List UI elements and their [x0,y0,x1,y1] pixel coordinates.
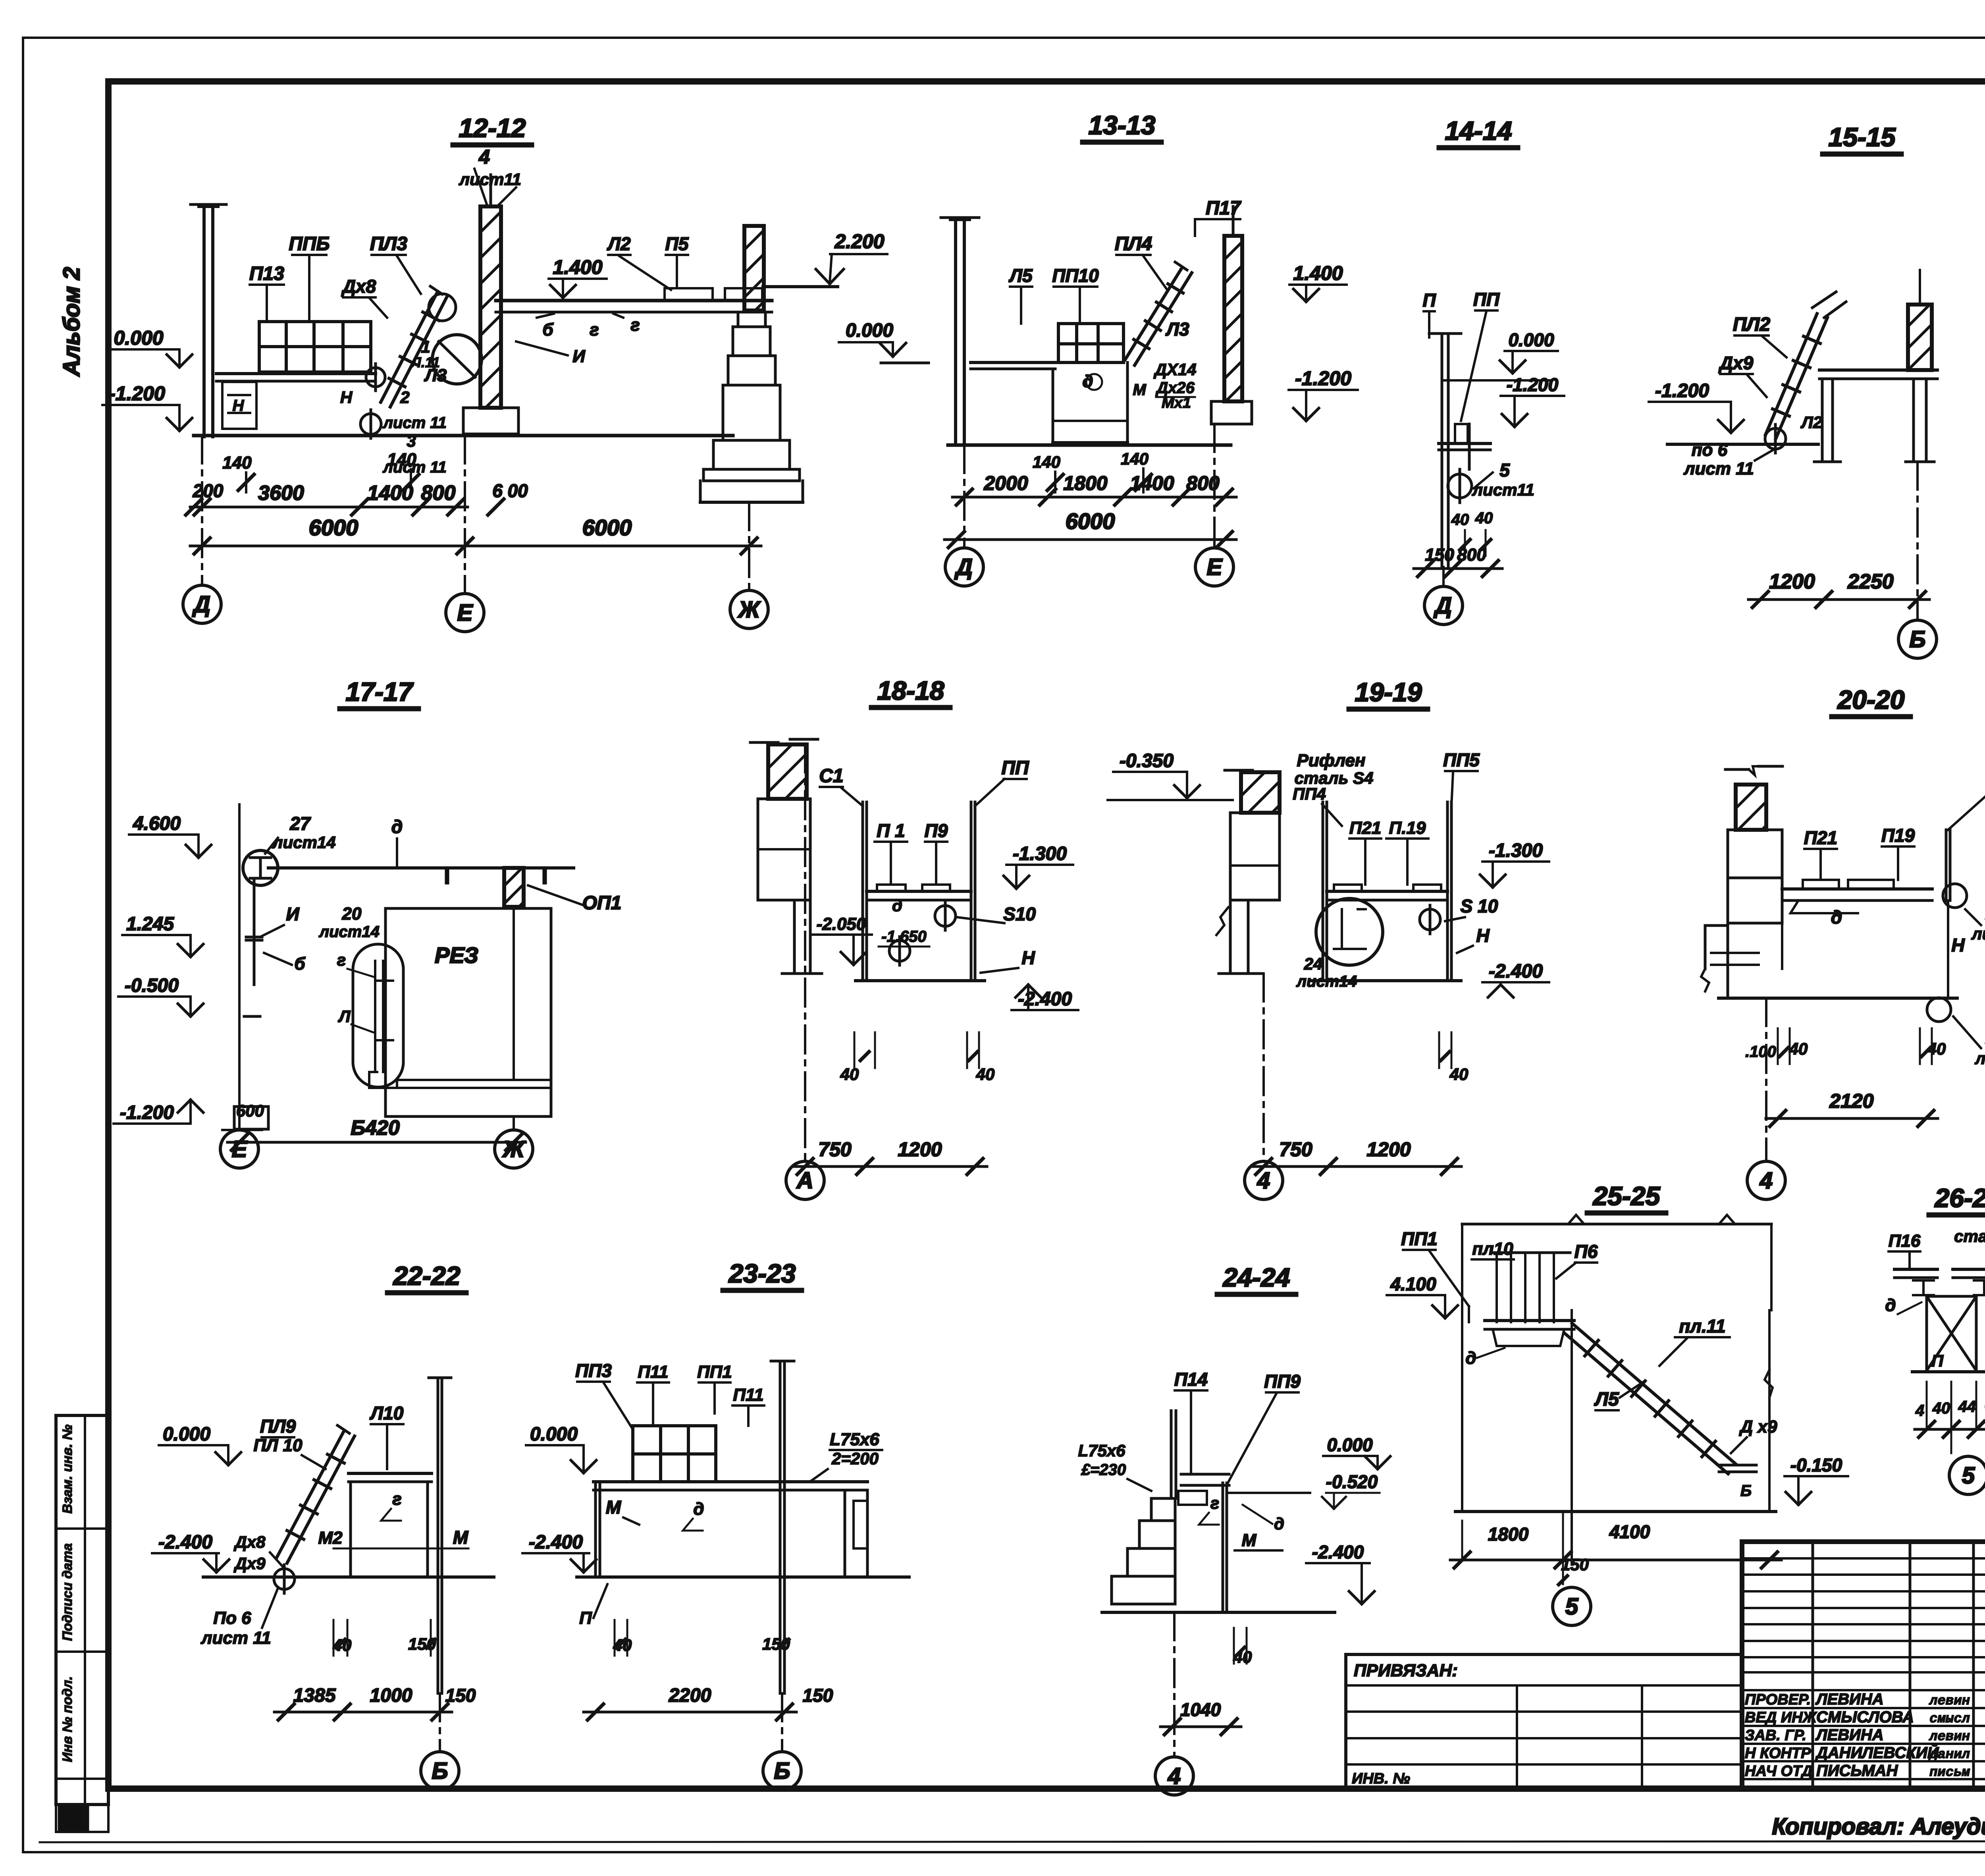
svg-text:И: И [286,904,299,924]
svg-text:13-13: 13-13 [1089,110,1156,140]
svg-text:1400: 1400 [367,482,413,505]
svg-text:L75х6: L75х6 [830,1430,879,1449]
svg-text:ПП9: ПП9 [1264,1371,1301,1392]
svg-text:Н: Н [1476,925,1490,946]
svg-text:П21: П21 [1349,818,1382,838]
svg-text:Д: Д [954,554,973,580]
svg-text:I: I [542,865,547,889]
svg-text:-2.400: -2.400 [158,1532,212,1553]
svg-text:ПЛ 10: ПЛ 10 [253,1436,303,1455]
svg-text:40: 40 [333,1636,352,1654]
svg-text:М: М [453,1527,469,1548]
svg-text:П11: П11 [733,1385,763,1405]
svg-text:П11: П11 [638,1362,668,1382]
svg-text:А: А [796,1168,813,1193]
svg-text:0.000: 0.000 [114,327,163,349]
svg-text:И: И [572,347,586,366]
svg-text:L75х6: L75х6 [1078,1441,1125,1460]
svg-text:г: г [590,320,599,339]
svg-text:П16: П16 [1889,1231,1921,1251]
svg-text:Б: Б [432,1758,448,1784]
svg-text:1000: 1000 [370,1685,412,1706]
svg-text:140: 140 [1033,453,1060,471]
svg-text:ВЕД ИНЖ: ВЕД ИНЖ [1745,1709,1817,1726]
svg-text:г: г [1210,1494,1219,1512]
svg-text:Подписи дата: Подписи дата [60,1543,75,1641]
svg-text:ПП: ПП [1001,758,1029,779]
svg-text:По 6: По 6 [213,1608,251,1628]
svg-text:0.000: 0.000 [530,1424,578,1445]
svg-text:1200: 1200 [1769,570,1815,593]
svg-text:П14: П14 [1174,1369,1208,1390]
svg-text:4.100: 4.100 [1390,1274,1436,1294]
svg-text:д: д [1831,907,1842,927]
svg-text:Дх8: Дх8 [233,1533,266,1551]
svg-text:ПЛ4: ПЛ4 [1115,233,1152,255]
svg-text:Н КОНТР: Н КОНТР [1745,1745,1811,1762]
svg-text:2250: 2250 [1847,570,1894,593]
svg-text:ПП5: ПП5 [1443,750,1480,770]
svg-text:2120: 2120 [1829,1090,1873,1112]
svg-text:Н: Н [340,388,353,407]
svg-text:-0.500: -0.500 [125,975,179,996]
svg-text:лист 11: лист 11 [382,414,447,432]
svg-text:Н: Н [233,397,245,415]
svg-text:-1.200: -1.200 [1655,380,1709,401]
svg-text:26-26: 26-26 [1934,1183,1985,1213]
svg-text:1.400: 1.400 [553,256,602,278]
svg-text:П19: П19 [1881,825,1915,846]
svg-text:150: 150 [1425,545,1454,565]
svg-text:4: 4 [1257,1168,1270,1193]
svg-text:0.000: 0.000 [846,320,893,341]
svg-text:Ж: Ж [502,1136,526,1162]
svg-text:40: 40 [1789,1039,1808,1058]
svg-text:1200: 1200 [1366,1138,1411,1161]
svg-text:1400: 1400 [1130,472,1174,494]
svg-text:ЛЕВИНА: ЛЕВИНА [1815,1726,1884,1744]
svg-text:С1: С1 [819,765,843,787]
svg-text:Л5: Л5 [1008,265,1033,286]
svg-text:П21: П21 [1804,827,1837,848]
svg-text:П 1: П 1 [877,820,905,841]
svg-text:Дх8: Дх8 [341,276,376,297]
svg-text:1: 1 [421,337,430,356]
svg-text:Д х9: Д х9 [1739,1417,1777,1436]
svg-text:г: г [392,1489,401,1509]
svg-text:1040: 1040 [1180,1699,1221,1720]
svg-text:1800: 1800 [1488,1524,1529,1544]
svg-text:2.200: 2.200 [834,230,884,253]
svg-text:СМЫСЛОВА: СМЫСЛОВА [1816,1708,1914,1726]
svg-text:левин: левин [1929,1694,1970,1709]
svg-text:2=200: 2=200 [831,1449,879,1468]
svg-text:Б: Б [1909,627,1925,652]
svg-text:ПП1: ПП1 [697,1362,732,1382]
svg-text:-0.350: -0.350 [1120,750,1174,771]
svg-text:750: 750 [1279,1138,1312,1161]
svg-text:600: 600 [236,1101,264,1120]
svg-text:б: б [294,954,306,974]
svg-text:Л3: Л3 [1165,319,1189,339]
svg-text:П: П [579,1608,592,1628]
svg-text:М: М [1242,1531,1257,1550]
svg-text:-2.400: -2.400 [529,1532,583,1553]
svg-text:800: 800 [1457,545,1486,565]
svg-text:Б: Б [774,1758,790,1784]
svg-text:24: 24 [1304,954,1323,973]
svg-text:Н: Н [1951,935,1965,955]
svg-text:П13: П13 [249,263,284,284]
svg-text:ПЛ2: ПЛ2 [1733,314,1771,335]
svg-text:S 10: S 10 [1461,896,1498,916]
svg-text:-1.200: -1.200 [1507,374,1559,395]
svg-text:Взам. инв. №: Взам. инв. № [60,1425,75,1514]
svg-text:М2: М2 [318,1528,343,1548]
svg-text:4: 4 [1168,1763,1181,1789]
svg-text:ПП: ПП [1473,289,1500,310]
svg-text:12-12: 12-12 [459,113,526,143]
svg-text:40: 40 [1932,1400,1950,1417]
svg-text:Б: Б [1740,1482,1752,1500]
svg-text:ДХ14: ДХ14 [1153,360,1196,379]
svg-text:П6: П6 [1575,1241,1598,1262]
svg-text:£=230: £=230 [1081,1461,1126,1479]
svg-text:0.000: 0.000 [163,1424,210,1445]
svg-text:I: I [444,865,450,889]
svg-text:письм: письм [1929,1765,1970,1780]
svg-text:Дх9: Дх9 [233,1554,266,1573]
svg-text:-0.150: -0.150 [1790,1455,1842,1475]
svg-text:лист14: лист14 [272,833,335,852]
svg-text:2: 2 [400,388,409,407]
svg-text:ОП1: ОП1 [582,893,622,914]
svg-text:140: 140 [387,450,416,469]
svg-text:П: П [1422,290,1436,310]
svg-text:4100: 4100 [1609,1521,1650,1542]
svg-text:0.000: 0.000 [1508,330,1554,350]
svg-text:д: д [1465,1348,1476,1368]
svg-text:3600: 3600 [258,482,304,505]
svg-text:20: 20 [342,904,362,924]
svg-text:0.000: 0.000 [1327,1434,1373,1455]
svg-text:лист14: лист14 [318,923,380,941]
svg-text:ПП3: ПП3 [575,1360,612,1381]
svg-text:.100: .100 [1745,1043,1776,1060]
svg-text:г: г [630,315,640,335]
svg-text:Рифлен: Рифлен [1297,751,1366,770]
svg-text:пл.11: пл.11 [1679,1316,1725,1336]
svg-text:ПЛ9: ПЛ9 [260,1416,296,1436]
svg-text:-1.200: -1.200 [120,1102,174,1123]
svg-text:д: д [391,816,403,837]
svg-text:5: 5 [1499,460,1510,480]
svg-text:ПРОВЕР.: ПРОВЕР. [1745,1691,1811,1708]
svg-text:Н: Н [1021,947,1035,968]
svg-text:Л10: Л10 [370,1403,404,1423]
svg-text:П17: П17 [1206,198,1241,219]
svg-text:ПП4: ПП4 [1293,785,1326,803]
svg-text:23-23: 23-23 [728,1259,796,1288]
svg-text:19-19: 19-19 [1355,677,1422,707]
svg-text:Е: Е [457,600,474,626]
svg-text:200: 200 [193,480,224,501]
svg-text:-1.650: -1.650 [881,928,926,945]
svg-text:П9: П9 [925,820,948,841]
svg-text:14-14: 14-14 [1445,116,1512,145]
svg-text:150: 150 [803,1685,833,1706]
svg-text:800: 800 [421,482,456,505]
svg-text:смысл: смысл [1929,1712,1970,1727]
svg-text:д: д [892,896,902,915]
svg-text:д: д [1274,1514,1284,1533]
svg-text:140: 140 [1121,449,1149,468]
svg-text:М: М [606,1497,622,1517]
svg-text:ИНВ. №: ИНВ. № [1352,1770,1410,1787]
svg-text:РЕЗ: РЕЗ [435,943,478,968]
svg-text:6000: 6000 [582,515,632,540]
svg-text:по 6: по 6 [1692,440,1728,460]
svg-text:-2.400: -2.400 [1018,989,1072,1010]
svg-text:4.600: 4.600 [133,813,181,834]
svg-text:Б420: Б420 [351,1116,400,1139]
svg-text:пл10: пл10 [1472,1239,1513,1259]
svg-text:Альбом 2: Альбом 2 [59,267,85,377]
svg-text:4: 4 [1915,1402,1924,1419]
svg-text:1385: 1385 [293,1685,336,1706]
svg-text:сталь: сталь [1954,1227,1985,1246]
svg-text:Е: Е [232,1136,248,1162]
svg-text:2000: 2000 [983,472,1028,494]
svg-text:д: д [693,1499,704,1519]
svg-text:-2.050: -2.050 [817,914,866,934]
svg-text:ЛЕВИНА: ЛЕВИНА [1815,1691,1884,1708]
svg-text:Л5: Л5 [1594,1389,1619,1410]
svg-text:S10: S10 [1003,904,1036,924]
svg-text:20-20: 20-20 [1837,685,1905,714]
svg-text:17-17: 17-17 [346,677,414,706]
svg-text:-1.300: -1.300 [1013,843,1067,864]
svg-text:5: 5 [1565,1594,1578,1620]
svg-text:6000: 6000 [309,515,358,540]
svg-text:1.400: 1.400 [1293,262,1343,284]
svg-text:М: М [1133,381,1147,399]
svg-text:Дх26: Дх26 [1155,379,1195,397]
svg-text:750: 750 [818,1138,852,1161]
svg-text:Л: Л [338,1007,351,1026]
svg-text:ДАНИЛЕВСКИЙ: ДАНИЛЕВСКИЙ [1815,1743,1939,1762]
svg-text:Л2: Л2 [607,233,631,254]
svg-text:-1.200: -1.200 [109,382,165,405]
svg-text:24-24: 24-24 [1222,1263,1290,1292]
svg-text:левин: левин [1929,1729,1970,1745]
svg-text:данил: данил [1928,1747,1970,1762]
svg-text:-0.520: -0.520 [1326,1471,1378,1492]
svg-text:44: 44 [1958,1398,1976,1415]
svg-text:лист 11: лист 11 [200,1628,271,1648]
svg-text:4: 4 [1760,1168,1773,1193]
svg-text:1800: 1800 [1063,472,1107,494]
svg-text:25-25: 25-25 [1592,1181,1661,1211]
svg-text:лист14: лист14 [1974,1049,1985,1068]
svg-text:ППБ: ППБ [289,233,330,255]
svg-text:-1.300: -1.300 [1489,840,1543,861]
svg-text:6000: 6000 [1066,509,1115,534]
svg-text:ЗАВ. ГР.: ЗАВ. ГР. [1745,1727,1806,1744]
svg-text:Мх1: Мх1 [1162,395,1191,411]
svg-text:д: д [1885,1296,1896,1315]
svg-text:лист14: лист14 [1296,973,1357,990]
svg-text:Л2: Л2 [1800,413,1822,432]
svg-text:П5: П5 [665,233,689,254]
svg-text:Дх9: Дх9 [1718,353,1754,373]
svg-text:40: 40 [613,1636,632,1654]
svg-text:5: 5 [1962,1463,1975,1488]
svg-text:ПРИВЯЗАН:: ПРИВЯЗАН: [1354,1661,1458,1680]
svg-text:ПИСЬМАН: ПИСЬМАН [1816,1762,1898,1780]
svg-text:140: 140 [222,453,252,472]
svg-text:Ж: Ж [737,597,761,623]
svg-text:18-18: 18-18 [877,676,944,705]
svg-text:15-15: 15-15 [1829,122,1896,152]
svg-text:-1.200: -1.200 [1295,367,1351,389]
svg-text:ПП10: ПП10 [1052,265,1099,286]
svg-text:2200: 2200 [669,1685,711,1706]
svg-text:лист 14: лист 14 [1971,924,1985,943]
svg-text:П.19: П.19 [1389,818,1426,838]
svg-text:Е: Е [1207,554,1223,580]
svg-text:г: г [337,951,346,969]
svg-text:4: 4 [478,146,490,168]
svg-text:27: 27 [289,813,311,834]
svg-text:1200: 1200 [898,1138,942,1161]
svg-text:П: П [1931,1352,1944,1370]
svg-text:Д: Д [192,592,210,617]
svg-text:ПП1: ПП1 [1401,1228,1438,1249]
svg-text:6 00: 6 00 [492,480,528,501]
svg-text:40: 40 [840,1065,859,1084]
svg-text:40: 40 [1451,511,1469,528]
svg-text:1.245: 1.245 [126,914,174,935]
svg-text:Д: Д [1433,593,1452,619]
svg-text:150: 150 [1561,1555,1589,1574]
svg-text:ПЛ3: ПЛ3 [370,233,408,255]
svg-text:НАЧ ОТД: НАЧ ОТД [1745,1763,1813,1780]
svg-text:-2.400: -2.400 [1489,961,1543,982]
svg-text:б: б [542,320,554,339]
svg-text:22-22: 22-22 [393,1261,461,1290]
svg-text:40: 40 [1475,509,1493,527]
svg-text:лист 11: лист 11 [1683,459,1754,478]
svg-text:150: 150 [445,1685,476,1706]
svg-text:-2.400: -2.400 [1312,1542,1364,1562]
svg-text:Инв № подл.: Инв № подл. [60,1676,75,1762]
svg-text:Копировал: Алеудикова: Копировал: Алеудикова [1772,1814,1985,1839]
